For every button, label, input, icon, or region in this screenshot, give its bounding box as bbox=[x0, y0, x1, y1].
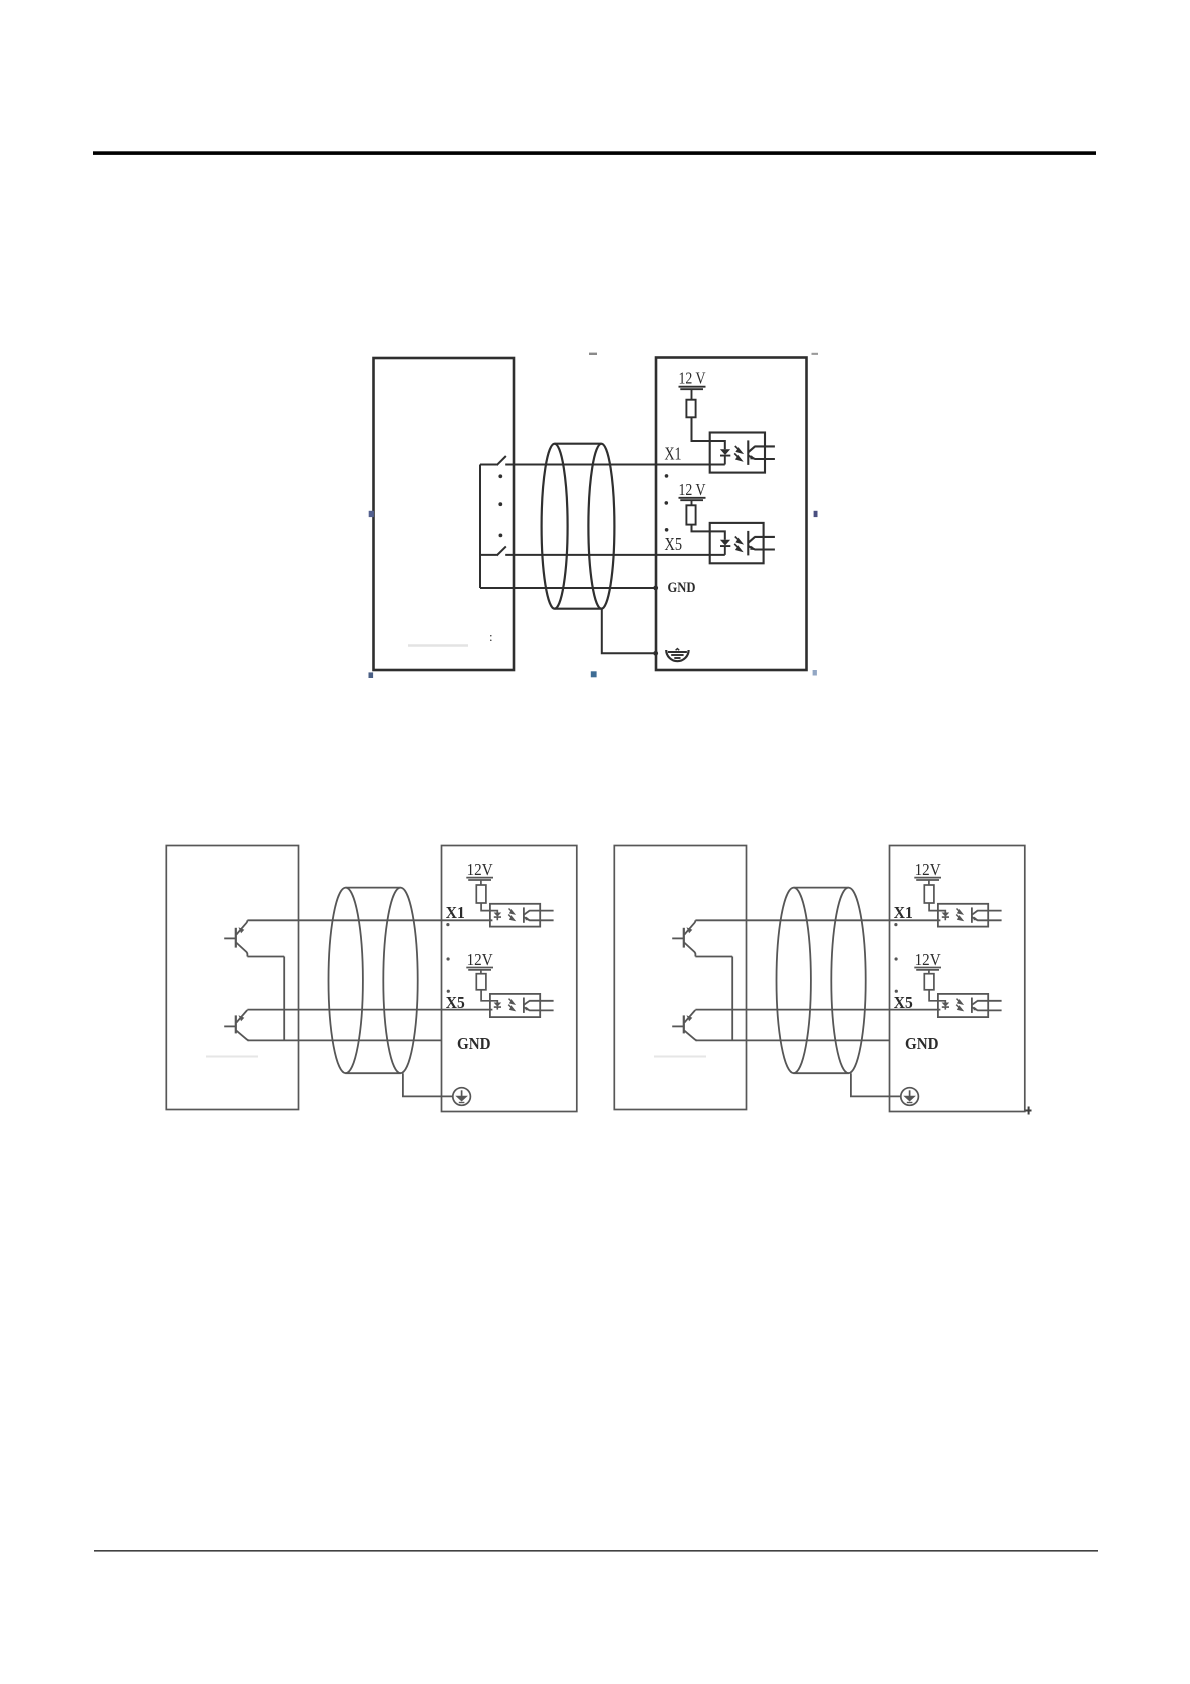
wire shield drain bbox=[602, 609, 655, 654]
optocoupler U1 box (fig1) bbox=[710, 433, 765, 473]
dot pin 2 (fig1) bbox=[665, 474, 669, 478]
faint smudge in left box (fig1) bbox=[408, 644, 468, 647]
selection handle bottom-right bbox=[813, 670, 817, 676]
phototransistor of U2 (fig2) bbox=[524, 998, 554, 1013]
optocoupler U2 box (fig1) bbox=[710, 523, 764, 563]
dot contact 1 bbox=[498, 474, 502, 478]
controller box (left, fig2) bbox=[166, 846, 298, 1110]
wire R2 to opto U2 bbox=[692, 525, 725, 540]
wire X5 line bbox=[505, 554, 725, 556]
selection handle bottom-middle bbox=[591, 671, 597, 677]
wire R1 to opto U1 bbox=[692, 417, 725, 449]
emitter arrowhead of U1 bbox=[750, 455, 756, 459]
stray dash mark top-right bbox=[812, 353, 819, 355]
resistor R2 (fig2) bbox=[476, 974, 486, 990]
phototransistor of U1 (fig2) bbox=[524, 907, 554, 922]
transistor Q1 base bar bbox=[235, 928, 237, 948]
wire X5 feed bbox=[480, 554, 497, 556]
dot contact 2 bbox=[498, 502, 502, 506]
drive box (right, fig1) bbox=[656, 358, 807, 671]
shielded cable (fig2) bbox=[329, 888, 453, 1097]
optocoupler U2 box (fig2) bbox=[490, 994, 540, 1017]
selection handle left-middle bbox=[369, 511, 374, 517]
emitter arrowhead U2 (fig2) bbox=[526, 1007, 531, 1011]
switch S2 blade bbox=[497, 546, 506, 555]
12V rail bars (lower, fig1) bbox=[679, 498, 706, 506]
controller box (left, fig1) bbox=[374, 358, 515, 670]
transistor Q1 base lead bbox=[224, 937, 235, 939]
light arrows of U2 (fig2) bbox=[508, 999, 514, 1011]
dot pin 4 (fig2) bbox=[447, 990, 450, 993]
faint smudge (fig2) bbox=[206, 1056, 258, 1058]
svg-text:X1: X1 bbox=[665, 444, 682, 464]
dot pin 3 (fig1) bbox=[665, 501, 669, 505]
resistor R1 (fig2) bbox=[476, 885, 486, 903]
wire X1 line bbox=[505, 464, 725, 466]
svg-text:X1: X1 bbox=[446, 903, 465, 922]
stray dash mark top-center bbox=[589, 353, 597, 355]
selection handle right-middle bbox=[814, 511, 818, 517]
dot pin 4 (fig1) bbox=[665, 528, 669, 532]
light arrows of U2 bbox=[734, 537, 742, 551]
arrowhead Q2 bbox=[239, 1015, 245, 1021]
light arrows of U1 (fig2) bbox=[508, 909, 514, 921]
bottom horizontal rule bbox=[94, 1550, 1098, 1551]
bracket wire (common bus in left box) bbox=[479, 465, 481, 589]
svg-text:X5: X5 bbox=[446, 993, 465, 1012]
transistor Q1 emitter bbox=[236, 943, 247, 957]
light arrows of U1 bbox=[734, 446, 742, 460]
svg-text::: : bbox=[489, 629, 493, 644]
top horizontal rule bbox=[93, 151, 1096, 155]
svg-text:12V: 12V bbox=[467, 950, 493, 969]
junction dot GND at box edge bbox=[653, 586, 658, 591]
svg-text:GND: GND bbox=[668, 580, 696, 596]
LED of U1 bbox=[720, 449, 730, 455]
resistor R1 (fig1) bbox=[686, 400, 695, 418]
svg-text:12 V: 12 V bbox=[679, 480, 707, 499]
arrowhead Q1 bbox=[239, 927, 245, 933]
wire GND line (fig2) bbox=[247, 1039, 441, 1041]
wire emitter bus bbox=[247, 957, 284, 1041]
LED of U1 (fig2) bbox=[494, 913, 502, 917]
LED of U2 bbox=[720, 540, 730, 546]
switch S1 blade bbox=[497, 456, 506, 465]
wire R2 to opto (fig2) bbox=[481, 990, 497, 1003]
stray plus mark at fig3 corner bbox=[1026, 1107, 1032, 1115]
wire X1 line (fig2) bbox=[247, 919, 492, 921]
shielded cable (fig1) bbox=[542, 444, 615, 609]
wire R1 to opto (fig2) bbox=[481, 903, 497, 913]
wire X1 feed bbox=[480, 464, 497, 466]
earth terminal symbol (fig1) bbox=[666, 649, 688, 662]
wire shield drain (fig2) bbox=[403, 1073, 453, 1096]
LED of U2 (fig2) bbox=[494, 1003, 502, 1007]
transistor Q2 base lead bbox=[224, 1025, 235, 1027]
dot pin 2 (fig2) bbox=[446, 923, 449, 926]
optocoupler U1 box (fig2) bbox=[490, 904, 540, 927]
transistor Q1 collector bbox=[236, 920, 247, 934]
dot contact 3 bbox=[499, 534, 503, 538]
svg-text:12V: 12V bbox=[467, 860, 493, 879]
emitter arrowhead of U2 bbox=[750, 546, 756, 550]
phototransistor of U1 bbox=[748, 440, 775, 465]
svg-text:X5: X5 bbox=[665, 534, 683, 554]
wire GND line bbox=[480, 587, 655, 589]
phototransistor of U2 bbox=[748, 531, 775, 556]
junction dot shield at box edge bbox=[653, 651, 658, 656]
transistor Q2 collector bbox=[236, 1010, 247, 1023]
earth terminal in circle (fig2) bbox=[453, 1088, 471, 1106]
transistor Q2 base bar bbox=[235, 1015, 237, 1033]
resistor R2 (fig1) bbox=[686, 505, 695, 524]
drive box (right, fig2) bbox=[442, 846, 577, 1112]
wire X5 line (fig2) bbox=[247, 1009, 492, 1011]
svg-text:12 V: 12 V bbox=[679, 369, 707, 388]
12V rail bars (upper, fig1) bbox=[679, 387, 706, 400]
selection handle bottom-left bbox=[369, 672, 374, 678]
transistor Q2 emitter bbox=[236, 1031, 249, 1041]
emitter arrowhead U1 (fig2) bbox=[526, 917, 531, 921]
dot pin 3 (fig2) bbox=[447, 957, 450, 960]
svg-text:GND: GND bbox=[457, 1034, 491, 1053]
